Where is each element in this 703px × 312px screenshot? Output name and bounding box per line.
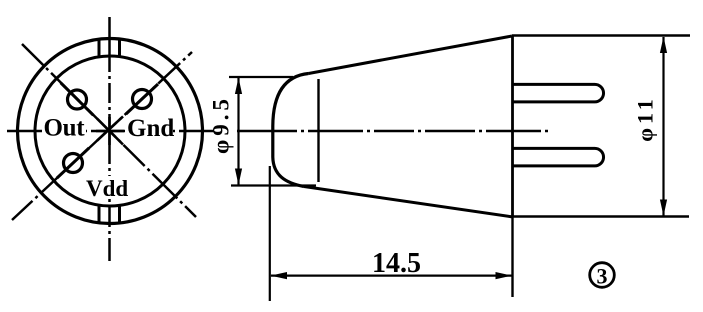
svg-text:3: 3 — [597, 264, 608, 289]
pin Gnd slash — [126, 84, 158, 114]
dimension phi9.5 top extension line — [229, 76, 293, 78]
svg-text:Vdd: Vdd — [86, 176, 128, 201]
top lead pin — [513, 84, 604, 102]
dimension phi11 bottom extension line — [513, 215, 689, 217]
figure number circle 3 — [590, 263, 615, 288]
svg-text:Gnd: Gnd — [127, 115, 174, 142]
dimension phi11 bottom arrow — [660, 200, 667, 217]
dome junction line — [317, 79, 319, 182]
dimension phi9.5 line — [237, 78, 239, 185]
dimension phi9.5 bottom extension line — [231, 184, 316, 186]
pin Vdd circle — [64, 154, 83, 173]
dimension phi11 line — [662, 37, 664, 216]
dimension 14.5 right arrow — [496, 272, 513, 279]
dimension 14.5 left extension line — [269, 166, 271, 301]
label Vdd — [83, 176, 128, 196]
body top slope — [309, 36, 513, 74]
body bottom slope — [304, 187, 513, 218]
center star solid segments — [96, 130, 124, 133]
front view diagonal centerline TL-BR — [22, 44, 196, 217]
label Out — [42, 117, 86, 137]
dimension phi9.5 top arrow — [235, 78, 242, 95]
pin Out slash — [61, 83, 94, 115]
inner circle of connector body — [35, 56, 185, 206]
pin Vdd slash — [57, 148, 89, 178]
dimension 14.5 left arrow — [271, 272, 288, 279]
dimension phi11 top extension line — [512, 34, 690, 36]
dimension phi9.5 bottom arrow — [235, 169, 242, 186]
dome nose outline — [273, 74, 309, 187]
bottom lead pin — [513, 148, 604, 166]
dimension 14.5 line — [271, 275, 512, 277]
svg-text:φ9.5: φ9.5 — [209, 95, 234, 154]
side view horizontal centerline — [237, 130, 551, 133]
front view vertical centerline — [108, 17, 111, 261]
label Gnd — [125, 116, 173, 137]
svg-text:14.5: 14.5 — [372, 248, 421, 279]
bottom key notch — [98, 205, 101, 225]
svg-text:φ11: φ11 — [633, 95, 658, 142]
pin Gnd circle — [133, 90, 152, 109]
body right edge — [511, 36, 514, 217]
top key notch — [98, 39, 101, 58]
pin Out circle — [68, 90, 87, 109]
svg-text:Out: Out — [44, 115, 86, 142]
front view diagonal centerline BL-TR — [12, 52, 192, 220]
outer circle of connector body — [18, 39, 203, 224]
dimension 14.5 right extension line — [511, 217, 513, 297]
front view horizontal centerline — [7, 130, 214, 133]
dimension phi11 top arrow — [660, 37, 667, 54]
